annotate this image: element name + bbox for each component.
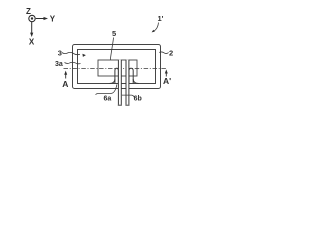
svg-text:X: X <box>29 38 35 47</box>
element box 5 <box>98 60 137 76</box>
outer case rectangle (2) <box>73 45 161 89</box>
svg-text:Z: Z <box>26 7 31 16</box>
leader for 6a <box>96 84 117 94</box>
axis Y arrow <box>36 18 45 20</box>
leader for 2 <box>159 52 168 54</box>
lead 6a (left) <box>118 60 121 105</box>
svg-text:A': A' <box>163 76 171 86</box>
section arrow A' (right) <box>165 72 167 77</box>
left support arch <box>115 68 119 83</box>
svg-text:1': 1' <box>158 14 164 23</box>
svg-text:Y: Y <box>50 15 56 24</box>
leader for 5 <box>110 38 113 61</box>
leader for 3a <box>65 62 81 64</box>
leader for 1' <box>154 23 159 32</box>
axis origin circle (Z out of page) <box>29 15 35 21</box>
svg-text:3a: 3a <box>55 61 63 68</box>
lead 6b (right) <box>126 60 129 105</box>
section arrow A (left) <box>65 73 67 79</box>
svg-text:3: 3 <box>58 49 62 58</box>
svg-text:2: 2 <box>169 49 173 58</box>
right support arch <box>129 68 133 83</box>
leader for 3 <box>62 52 80 54</box>
svg-text:6b: 6b <box>134 96 142 103</box>
leader for 6b <box>122 95 134 97</box>
svg-text:6a: 6a <box>104 95 112 102</box>
section line A-A' (dash-dot) <box>64 68 168 70</box>
svg-text:A: A <box>62 79 68 89</box>
axis X arrow <box>31 22 33 34</box>
inner case rectangle (3) <box>78 50 156 84</box>
svg-text:5: 5 <box>112 29 116 38</box>
